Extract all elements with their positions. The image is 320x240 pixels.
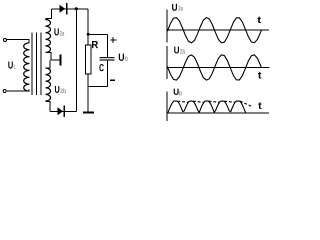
plot3 ripple dashed segment 3 — [209, 101, 220, 102]
secondary U2a to center tap jog — [45, 53, 51, 61]
transformer primary winding — [24, 43, 30, 91]
label C — [99, 64, 103, 71]
ground bar load — [83, 111, 94, 113]
plot3 ripple dashed segment 4 — [224, 101, 235, 102]
label U0 output — [119, 54, 124, 61]
plot1 vertical axis — [166, 10, 168, 43]
wire load feed vertical — [87, 9, 89, 34]
plot3 vertical axis — [166, 92, 168, 122]
label U2a winding subscript — [60, 31, 65, 36]
plot1 label t — [257, 17, 261, 23]
wire R bottom — [87, 74, 89, 86]
label R — [92, 41, 98, 48]
label U2b winding subscript — [60, 88, 66, 93]
plot3 label t — [258, 102, 261, 108]
wire top rail — [52, 8, 89, 10]
center tap wire — [51, 59, 59, 61]
resistor R box — [85, 45, 90, 74]
plot3 horizontal axis — [167, 112, 269, 114]
label U0 output subscript — [125, 57, 128, 62]
wire load top rail — [88, 33, 107, 35]
wire rectifier output vertical — [75, 9, 77, 112]
terminal top-left — [4, 39, 7, 42]
secondary U2b top jog — [46, 60, 51, 68]
plot1 label U2a — [172, 4, 177, 11]
label U2a winding — [54, 28, 58, 35]
plot3 rectified humps U0 — [168, 101, 246, 113]
wire ground stem — [87, 87, 89, 112]
label U1 — [8, 62, 13, 69]
label U1 subscript — [14, 64, 15, 69]
junction dot rectifier output — [75, 7, 78, 10]
wire primary bottom lead — [7, 90, 29, 91]
diode D2 — [58, 107, 64, 115]
plot2 sine U2b — [167, 55, 261, 80]
capacitor C top plate — [100, 57, 115, 58]
plot1 label U2a subscript — [178, 6, 183, 11]
junction dot load top — [87, 33, 90, 36]
wire R top — [87, 34, 89, 45]
plot2 label U2b subscript — [180, 49, 185, 54]
wire load bottom rail — [88, 86, 107, 88]
transformer core — [32, 33, 41, 96]
wire C top — [106, 34, 108, 57]
wire bottom rail — [50, 110, 76, 112]
diode D2 cathode bar — [64, 106, 66, 117]
plot2 label t — [258, 72, 261, 79]
secondary U2b bottom lead — [45, 101, 50, 111]
capacitor C bottom plate — [100, 59, 115, 60]
secondary lower winding U2b — [46, 68, 51, 101]
secondary top lead — [46, 9, 52, 19]
plot2 vertical axis — [166, 46, 168, 79]
secondary upper winding U2a — [46, 19, 51, 52]
plot1 horizontal axis — [167, 29, 269, 31]
wire C bottom — [106, 60, 108, 86]
minus sign — [110, 79, 115, 81]
plot3 ripple dashed segment 5 — [240, 101, 252, 107]
plot1 sine U2a — [167, 18, 261, 43]
plot2 label U2b — [174, 47, 179, 54]
plot2 horizontal axis — [167, 67, 269, 69]
diode D1 — [60, 5, 66, 13]
plot3 label U0 subscript — [179, 91, 182, 95]
terminal bottom-left — [3, 90, 6, 93]
diode D1 cathode bar — [66, 3, 68, 15]
plot3 label U0 — [174, 89, 179, 95]
plot3 ripple dashed segment 1 — [178, 101, 189, 102]
plus sign — [111, 37, 117, 43]
ground bar at center tap — [59, 55, 61, 66]
plot3 ripple dashed segment 2 — [193, 101, 204, 102]
label U2b winding — [55, 86, 59, 93]
wire primary top lead — [7, 40, 29, 43]
